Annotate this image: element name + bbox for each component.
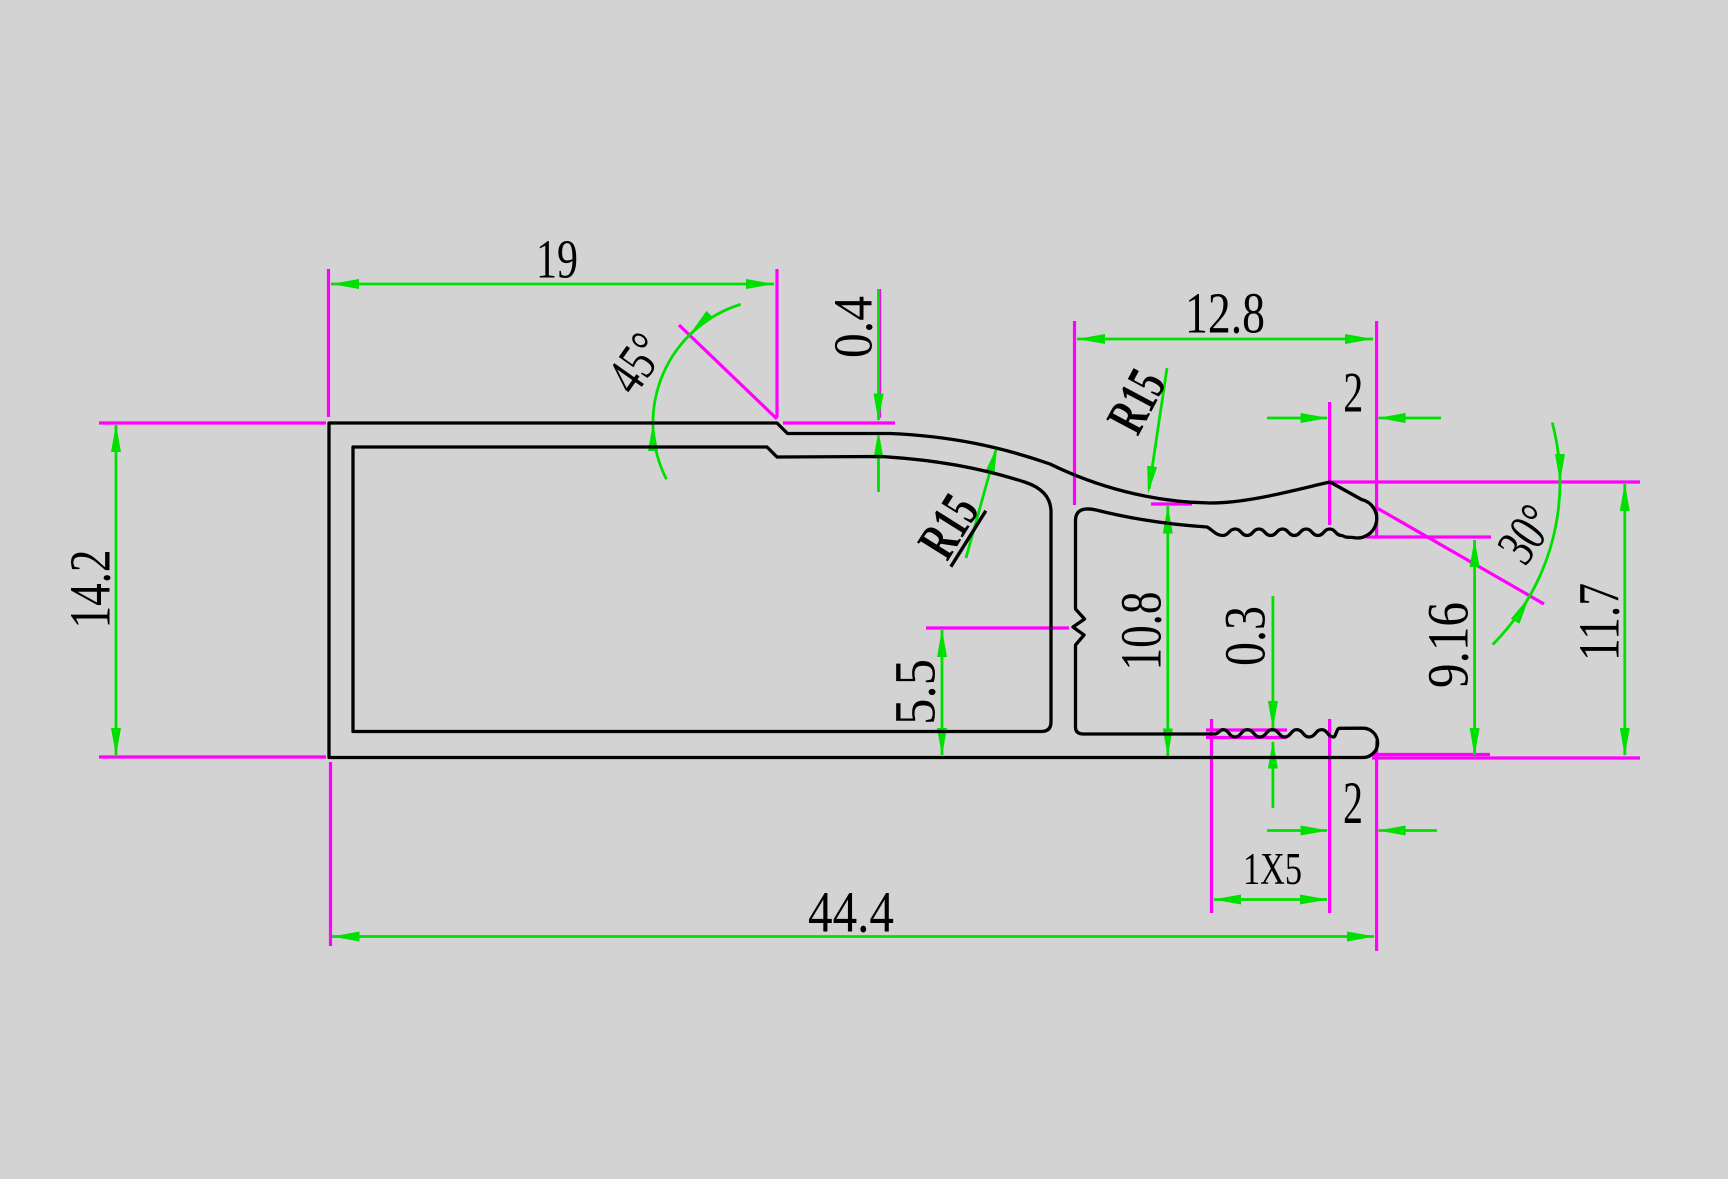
arrow 2 top left: [1301, 413, 1329, 423]
svg-text:0.3: 0.3: [1213, 606, 1278, 666]
ref line y504 arm dip: [1151, 502, 1192, 505]
arrow 11.7 top: [1620, 483, 1630, 511]
profile inner cavity outline: [353, 447, 1051, 732]
dim line 11.7: [1623, 484, 1626, 755]
ext line x1329 lower: [1328, 719, 1331, 913]
ext line 0.4 vertical x879: [878, 289, 881, 418]
ext line 12.8/2 right x1376 upper: [1375, 321, 1378, 537]
dim line 2 bottom right: [1379, 829, 1437, 832]
ext line top-left y423: [99, 421, 326, 424]
profile outer outline: [329, 423, 1378, 758]
dim line 0.4 lower tail: [877, 444, 880, 492]
svg-text:2: 2: [1343, 770, 1363, 836]
svg-text:14.2: 14.2: [58, 550, 123, 629]
arrow 10.8 top: [1163, 506, 1173, 534]
ext line 2 top x1329: [1328, 402, 1331, 525]
ref line 5.5 y628: [926, 626, 1069, 629]
arrow 2 bottom right: [1378, 826, 1406, 836]
45 deg dimension arc: [653, 304, 741, 479]
dim line 0.3 lower tail: [1272, 742, 1275, 808]
arrow 1X5 left: [1213, 895, 1241, 905]
ref line 0.3 crest y730: [1206, 728, 1287, 731]
arrow 30 arc upper: [1555, 454, 1565, 482]
svg-text:1X5: 1X5: [1243, 844, 1302, 894]
arrow 9.16 top: [1470, 539, 1480, 567]
ext line bottom-left y757: [99, 755, 326, 758]
svg-text:2: 2: [1343, 362, 1363, 425]
arrow 1X5 right: [1300, 895, 1328, 905]
arrow 30 arc lower: [1511, 597, 1529, 624]
arrow 44.4 left: [332, 932, 360, 942]
svg-text:11.7: 11.7: [1567, 583, 1632, 661]
ext line 1X5 left x1211: [1210, 719, 1213, 913]
arrow 0.4 top: [874, 394, 884, 422]
dim line 44.4: [332, 935, 1374, 938]
arrow 0.3 bottom: [1268, 741, 1278, 769]
arrow 19 left: [331, 279, 359, 289]
ext line 44.4 left x330: [329, 762, 332, 946]
ref line 11.7 bottom y758: [1372, 756, 1640, 759]
leader R15 lower: [966, 450, 996, 558]
arrow 2 top right: [1378, 413, 1406, 423]
arrow 14.2 bottom: [111, 728, 121, 756]
dim line 19: [331, 283, 774, 286]
svg-text:5.5: 5.5: [883, 659, 948, 725]
svg-text:19: 19: [536, 229, 578, 290]
dim line 9.16: [1473, 540, 1476, 755]
ref line y482 bulb corner: [1330, 480, 1640, 483]
30 deg leader line: [1377, 508, 1544, 604]
dim line 2 top right: [1379, 417, 1441, 420]
arrow leader R15 lower: [985, 447, 997, 475]
dim line 0.3 upper: [1272, 596, 1275, 728]
ext line 19 right x777: [775, 269, 778, 417]
dim line 12.8: [1077, 338, 1373, 341]
arrow 45 arc upper: [690, 311, 714, 334]
arrow 44.4 right: [1347, 932, 1375, 942]
arrow 10.8 bottom: [1163, 729, 1173, 757]
arrow 0.4 bottom: [874, 431, 884, 459]
arrow leader R15 upper: [1147, 466, 1157, 494]
30 deg dimension arc: [1493, 423, 1560, 645]
arrow 5.5 bottom: [937, 728, 947, 756]
dim line 0.4 upper: [877, 289, 880, 420]
svg-text:44.4: 44.4: [808, 880, 894, 945]
arrow 14.2 top: [111, 424, 121, 452]
dim line 1X5: [1214, 898, 1327, 901]
arrow 12.8 right: [1345, 334, 1373, 344]
arrow 0.3 top: [1268, 701, 1278, 729]
svg-text:9.16: 9.16: [1416, 602, 1481, 688]
arrow 9.16 bottom: [1470, 728, 1480, 756]
ext line 0.4 y423 right of step: [783, 421, 895, 424]
ref line 0.3 trough y737.5: [1206, 736, 1287, 739]
ref line y537 bulb bottom: [1366, 535, 1491, 538]
arrow 2 bottom left: [1301, 826, 1329, 836]
45 deg chamfer leader: [679, 325, 777, 419]
dim line 10.8: [1166, 506, 1169, 756]
arrow 5.5 top: [937, 629, 947, 657]
ext line 12.8 left x1074: [1073, 321, 1076, 505]
label R15 lower (underlined): [905, 482, 992, 570]
leader R15 upper: [1149, 368, 1167, 489]
svg-text:0.4: 0.4: [823, 296, 884, 358]
ref line 9.16 bottom y754.5: [1372, 753, 1490, 756]
arrow 11.7 bottom: [1620, 728, 1630, 756]
svg-text:10.8: 10.8: [1109, 592, 1174, 671]
ext line x1376 lower: [1375, 741, 1378, 951]
dim line 2 top left: [1267, 417, 1327, 420]
arrow 12.8 left: [1077, 334, 1105, 344]
ext line 19 left x328: [327, 269, 330, 417]
arrow 19 right: [746, 279, 774, 289]
dim line 2 bottom left: [1267, 829, 1327, 832]
arrow 45 arc lower: [648, 423, 658, 451]
svg-text:12.8: 12.8: [1185, 281, 1265, 346]
dim line 5.5: [941, 630, 944, 755]
dim line 14.2: [115, 425, 118, 755]
